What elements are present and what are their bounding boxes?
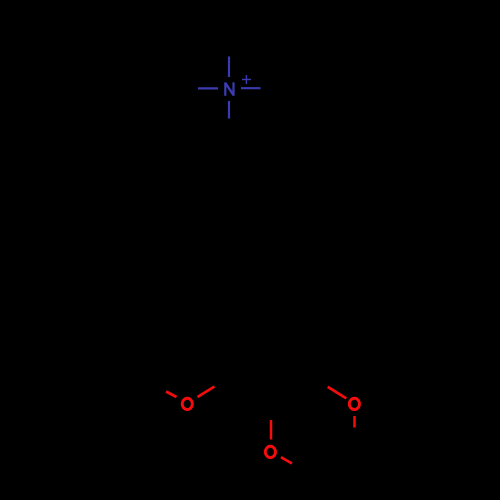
bond O2-CH2 (down half, O side) xyxy=(353,416,356,428)
bond O3-CH3 (down-right half, O side) xyxy=(281,457,292,463)
bond O1-ring C (half, O side) xyxy=(198,387,215,398)
bond N1-CH3 (left half, N side) xyxy=(198,87,218,89)
bond O2-ring C (half, O side) xyxy=(328,387,347,399)
bond O1-CH3 (half, O side) xyxy=(166,392,177,398)
atom O1 (left methoxy) label "O" xyxy=(182,398,192,409)
bond O3-ring C (up half, O side) xyxy=(270,420,273,440)
bond N1-CH3 (right half, N side) xyxy=(241,87,261,89)
bond N1-CH3 (up half, N side) xyxy=(228,57,230,78)
atom O2 (right) label "O" xyxy=(349,398,359,409)
atom N1 label "N" xyxy=(225,82,233,96)
N1 positive charge "+" xyxy=(242,75,251,84)
atom O3 (bottom) label "O" xyxy=(265,446,275,457)
bond N1-C2 chain (down half, N side) xyxy=(228,101,230,119)
